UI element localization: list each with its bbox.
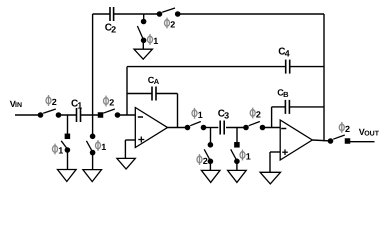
svg-text:4: 4 [285,49,290,59]
svg-text:2: 2 [111,24,116,34]
svg-text:2: 2 [52,97,57,107]
svg-text:IN: IN [15,102,22,109]
svg-text:1: 1 [153,36,158,46]
svg-text:1: 1 [77,101,82,111]
svg-text:2: 2 [256,110,261,120]
svg-text:3: 3 [224,110,229,120]
svg-text:1: 1 [198,110,203,120]
svg-text:B: B [283,90,289,99]
svg-text:1: 1 [246,152,251,162]
svg-text:2: 2 [170,20,175,30]
svg-text:1: 1 [58,146,63,156]
svg-text:2: 2 [109,98,114,108]
svg-text:2: 2 [345,124,350,134]
svg-text:A: A [154,77,160,86]
svg-text:1: 1 [101,142,106,152]
svg-text:2: 2 [203,156,208,166]
svg-text:OUT: OUT [364,131,380,138]
